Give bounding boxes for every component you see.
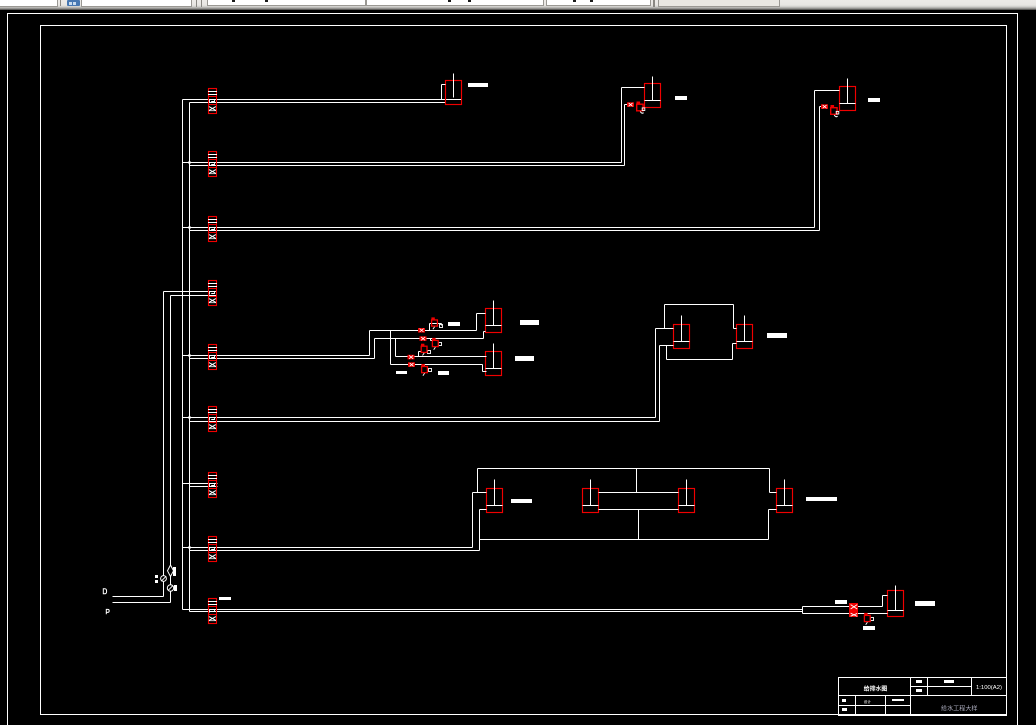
svg-text:1:100(A2): 1:100(A2) (976, 685, 1002, 691)
svg-text:给水工程大样: 给水工程大样 (941, 705, 977, 713)
svg-text:给排水图: 给排水图 (864, 684, 888, 692)
svg-text:设计: 设计 (864, 699, 872, 704)
